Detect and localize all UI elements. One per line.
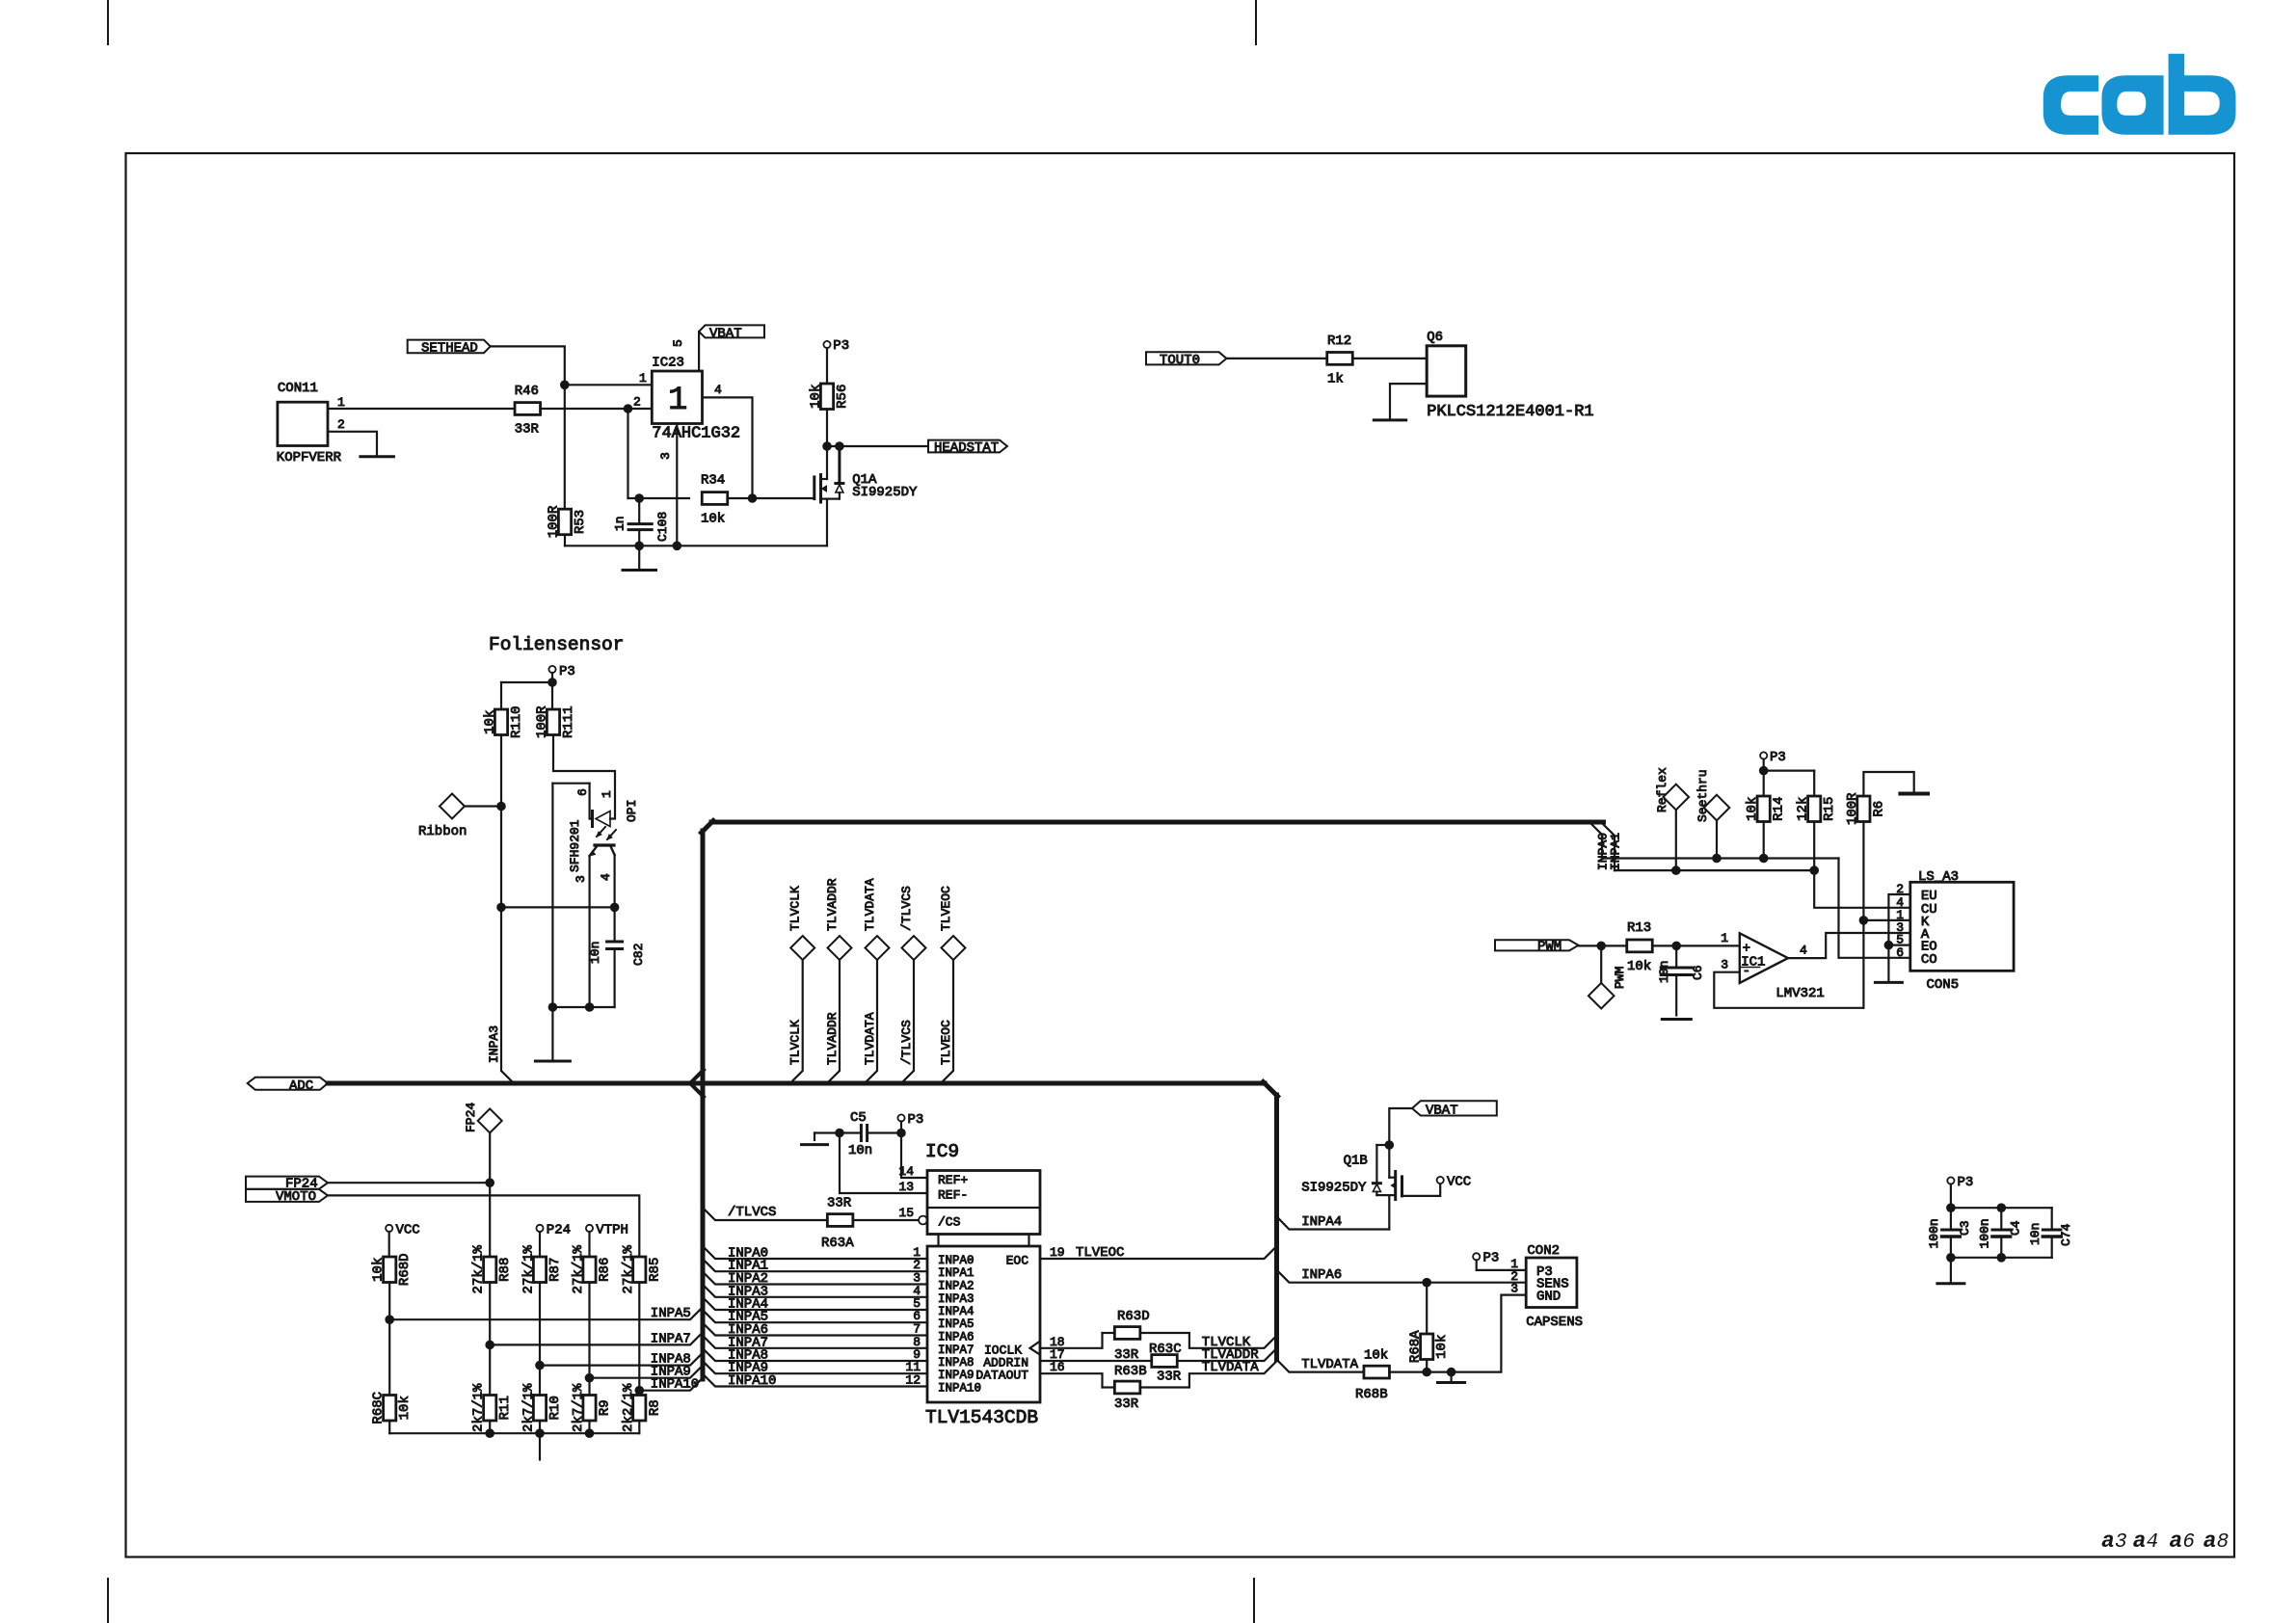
wire P24 to R87: [539, 1232, 541, 1257]
junction pin4/R34/gate: [748, 493, 758, 503]
resistor R85 27k/1%: [633, 1257, 646, 1283]
wire EU pin2 to ground: [1888, 894, 1909, 982]
svg-text:R9: R9: [598, 1399, 613, 1416]
svg-text:SI9925DY: SI9925DY: [852, 485, 918, 500]
svg-text:REF-: REF-: [938, 1188, 968, 1203]
wire R13 to opamp +input pin1: [1652, 945, 1740, 946]
svg-text:R34: R34: [701, 473, 725, 489]
svg-text:INPA3: INPA3: [938, 1292, 974, 1306]
wire R14 to upper net: [1763, 822, 1765, 859]
pin VTPH: [586, 1223, 628, 1238]
svg-text:FP24: FP24: [464, 1103, 478, 1132]
svg-text:Foliensensor: Foliensensor: [489, 634, 624, 655]
svg-text:GND: GND: [1536, 1290, 1561, 1305]
wire Reflex to lower net: [1675, 810, 1677, 870]
svg-text:4: 4: [714, 383, 722, 397]
svg-text:14: 14: [898, 1164, 914, 1179]
svg-text:IC23: IC23: [652, 356, 684, 371]
optocoupler OPI SFH9201: [552, 784, 639, 1007]
svg-text:2: 2: [337, 417, 345, 432]
capacitor C108 1n: [613, 498, 671, 545]
svg-text:19: 19: [1050, 1245, 1065, 1260]
pin P3 of foliensensor: [548, 664, 574, 679]
svg-text:TLVDATA: TLVDATA: [863, 878, 877, 931]
svg-text:10k: 10k: [483, 710, 498, 734]
svg-text:INPA3: INPA3: [487, 1025, 501, 1063]
svg-text:10k: 10k: [1434, 1335, 1450, 1359]
pin VCC: [386, 1223, 420, 1238]
svg-text:VCC: VCC: [1447, 1175, 1471, 1190]
resistor R68C 10k: [384, 1396, 396, 1422]
cab logo: [2043, 54, 2236, 135]
capacitor C6 10n: [1657, 945, 1705, 1015]
svg-text:IC9: IC9: [925, 1141, 959, 1162]
svg-text:R6: R6: [1871, 801, 1886, 817]
wire TLVADDR to bus: [1177, 1348, 1276, 1361]
wire IOCLK pin18 jog: [1040, 1333, 1103, 1348]
svg-text:DATAOUT: DATAOUT: [975, 1369, 1028, 1383]
svg-text:CAPSENS: CAPSENS: [1526, 1315, 1583, 1330]
wire EO pin5 to ground stem: [1888, 944, 1909, 945]
buzzer Q6 PKLCS1212E4001-R1: [1427, 330, 1593, 421]
op IC9 TLV1543CDB: [905, 1141, 1040, 1428]
ground rail of IC23 block: [565, 545, 827, 546]
pin VCC at Q1B: [1437, 1175, 1472, 1190]
ground symbol at CON5: [1875, 981, 1902, 984]
inversion bubble pin15: [919, 1216, 927, 1225]
svg-text:OPI: OPI: [625, 800, 639, 822]
svg-text:INPA6: INPA6: [938, 1331, 974, 1344]
svg-text:R63C: R63C: [1149, 1342, 1182, 1357]
svg-text:/TLVCS: /TLVCS: [899, 1020, 914, 1065]
wire INPA7 from bus to IC9: [703, 1336, 927, 1348]
net flag VMOTO: [246, 1189, 328, 1205]
svg-text:4: 4: [1800, 944, 1807, 958]
pin P3 at CON2: [1473, 1251, 1499, 1266]
svg-text:CON2: CON2: [1527, 1243, 1560, 1259]
svg-text:10n: 10n: [2028, 1223, 2042, 1245]
wire VTPH to R86: [588, 1232, 590, 1257]
svg-text:KOPFVERR: KOPFVERR: [277, 450, 342, 466]
net flag ADC: [248, 1078, 328, 1094]
svg-text:C6: C6: [1691, 965, 1705, 980]
svg-text:R87: R87: [547, 1258, 563, 1282]
wire IC23 pin5 to VBAT: [698, 332, 700, 371]
wire INPA9 from bus to IC9: [703, 1361, 927, 1373]
svg-text:/TLVCS: /TLVCS: [728, 1205, 776, 1220]
svg-text:LMV321: LMV321: [1775, 986, 1824, 1001]
svg-text:74AHC1G32: 74AHC1G32: [652, 425, 740, 443]
pin P3 at C3: [1947, 1175, 1973, 1190]
wire TLVDATA to ADC bus: [866, 960, 877, 1082]
svg-text:TLVDATA: TLVDATA: [1301, 1357, 1358, 1372]
svg-text:R11: R11: [497, 1396, 513, 1420]
ground symbol at C5: [814, 1133, 815, 1141]
svg-text:INPA10: INPA10: [651, 1377, 699, 1393]
svg-text:100R: 100R: [535, 705, 550, 738]
wire TLVEOC (pin19) to bus: [1040, 1246, 1277, 1259]
svg-text:10n: 10n: [588, 942, 602, 964]
svg-text:R46: R46: [515, 384, 539, 399]
svg-text:R63B: R63B: [1114, 1364, 1147, 1379]
svg-text:INPA7: INPA7: [938, 1344, 974, 1357]
wire ADDRIN pin17: [1040, 1360, 1152, 1362]
wire SETHEAD to IC23 pin1: [491, 346, 654, 385]
op IC23 74AHC1G32 OR gate: [652, 339, 740, 460]
svg-text:3: 3: [1510, 1282, 1518, 1296]
pin P24: [536, 1223, 571, 1238]
svg-text:CON11: CON11: [278, 381, 318, 396]
bus bend top-left: [702, 821, 714, 834]
wire Q1B gate to VCC: [1402, 1184, 1441, 1196]
svg-text:1: 1: [600, 790, 614, 798]
capacitor C4 100n: [1977, 1208, 2022, 1258]
wire upper net INPA0/Seethru/R14/CO: [1602, 857, 1839, 859]
wire INPA6 from bus to IC9: [703, 1323, 927, 1336]
svg-text:100n: 100n: [1977, 1218, 1991, 1248]
svg-text:Seethru: Seethru: [1695, 769, 1710, 822]
svg-text:TLVADDR: TLVADDR: [825, 878, 840, 931]
wire INPA1 from bus end: [1604, 825, 1615, 871]
wire P3 to CON2 pin1: [1477, 1260, 1527, 1270]
wire P3 to R14/R15 tops: [1763, 759, 1765, 796]
svg-text:HEADSTAT: HEADSTAT: [934, 440, 999, 456]
svg-text:TLVDATA: TLVDATA: [863, 1012, 877, 1065]
svg-text:R68C: R68C: [371, 1392, 387, 1424]
net flag diamond Seethru: [1695, 769, 1729, 822]
svg-text:R13: R13: [1627, 920, 1651, 936]
wire TOUT0 to R12: [1227, 358, 1328, 359]
svg-text:TLVEOC: TLVEOC: [939, 1020, 953, 1065]
resistor R9 2k7/1%: [583, 1396, 596, 1422]
transistor Q1B SI9925DY: [1301, 1145, 1402, 1230]
op-amp IC1 LMV321: [1740, 933, 1825, 1001]
bus junction ADC/left vertical: [690, 1070, 704, 1083]
svg-text:1: 1: [668, 383, 687, 419]
wire R68B to ground / CON2 GND pin3: [1390, 1295, 1527, 1372]
crop tick top-left: [107, 0, 109, 44]
svg-text:Reflex: Reflex: [1655, 767, 1669, 812]
svg-text:10k: 10k: [809, 385, 824, 409]
wire R63A to /CS pin15: [853, 1219, 919, 1221]
wire INPA3 from bus to IC9: [703, 1285, 927, 1297]
wire P3 to cap rail: [1950, 1184, 1952, 1229]
svg-text:100n: 100n: [1927, 1218, 1941, 1248]
svg-text:33R: 33R: [1157, 1370, 1182, 1385]
wire R110 down to ADC bus (INPA3): [501, 735, 514, 1084]
svg-text:VCC: VCC: [396, 1223, 420, 1238]
svg-text:5: 5: [671, 339, 685, 347]
resistor R87 27k/1%: [533, 1257, 546, 1283]
wire DATAOUT pin16 jog: [1040, 1373, 1103, 1387]
capacitor C74 10n: [2028, 1208, 2073, 1258]
svg-text:1: 1: [639, 371, 647, 386]
svg-text:4: 4: [2147, 1531, 2159, 1554]
wire Seethru to upper net: [1716, 820, 1718, 858]
svg-text:R68D: R68D: [397, 1253, 413, 1286]
wire INPA0 from bus end: [1591, 824, 1603, 859]
svg-text:12: 12: [905, 1373, 921, 1388]
ground symbol at C6: [1662, 1018, 1691, 1021]
wire TLVCLK to ADC bus: [791, 960, 803, 1082]
drawing frame border: [126, 153, 2235, 1557]
ground symbol at CON11 pin2: [360, 455, 394, 458]
ground symbol below C108: [638, 545, 640, 570]
svg-text:a: a: [2169, 1529, 2182, 1554]
net flag diamond TLVEOC: [939, 886, 966, 960]
resistor R63A 33R: [821, 1196, 854, 1252]
svg-text:R88: R88: [497, 1258, 513, 1282]
wire CON11 pin2 to ground: [328, 432, 377, 457]
svg-text:R53: R53: [573, 510, 588, 534]
wire VBAT to Q1B: [1389, 1108, 1412, 1145]
net flag TOUT0: [1146, 352, 1227, 368]
connector CON5 LS_A3: [1896, 869, 2014, 993]
connector CON11 KOPFVERR: [277, 381, 345, 466]
wire cap top rail: [1951, 1207, 2052, 1209]
svg-text:C108: C108: [655, 512, 670, 542]
svg-text:R63A: R63A: [821, 1236, 854, 1251]
wire IC23 pin3 to ground rail: [676, 424, 678, 546]
resistor R68A 10k: [1408, 1283, 1451, 1372]
svg-text:2: 2: [633, 395, 641, 410]
bus bend ADC to right vertical: [1263, 1082, 1277, 1097]
wire cap bottom rail: [1951, 1257, 2052, 1259]
pin P3 at C5: [897, 1112, 923, 1128]
resistor R53 100R: [547, 505, 589, 545]
svg-text:2k2/1%: 2k2/1%: [621, 1383, 636, 1432]
svg-text:1: 1: [1721, 931, 1728, 945]
resistor R8 2k2/1%: [633, 1396, 646, 1422]
svg-text:R110: R110: [509, 705, 524, 738]
wire CON11 pin1 to R46: [328, 408, 515, 410]
wire TLVDATA from bus: [1277, 1360, 1364, 1372]
svg-text:10k: 10k: [701, 512, 725, 527]
net flag diamond FP24: [464, 1103, 502, 1133]
svg-text:C4: C4: [2008, 1220, 2022, 1236]
svg-text:REF+: REF+: [938, 1173, 968, 1187]
svg-text:VBAT: VBAT: [709, 326, 742, 341]
svg-text:1: 1: [337, 395, 345, 410]
svg-text:2k7/1%: 2k7/1%: [471, 1383, 487, 1432]
wire R15 to lower net / CU pin4: [1814, 822, 1910, 908]
wire INPA2 from bus to IC9: [703, 1272, 927, 1285]
wire Q6 to ground: [1390, 384, 1427, 420]
svg-text:3: 3: [2115, 1531, 2127, 1554]
svg-text:P3: P3: [1958, 1175, 1974, 1190]
wire stub below rail: [539, 1433, 541, 1459]
svg-text:C3: C3: [1958, 1220, 1972, 1236]
svg-text:2k7/1%: 2k7/1%: [571, 1383, 586, 1432]
svg-text:C82: C82: [631, 944, 646, 966]
svg-text:ADC: ADC: [289, 1078, 313, 1094]
ground symbol at C3: [1937, 1282, 1964, 1285]
junction SETHEAD/R53 node: [560, 381, 570, 390]
wire R46 to IC23 pin2: [541, 408, 628, 410]
svg-text:Ribbon: Ribbon: [418, 824, 467, 839]
wire R56/Q1A drain to HEADSTAT: [827, 445, 928, 447]
wire INPA4 from bus to IC9: [703, 1297, 927, 1310]
svg-text:10k: 10k: [1364, 1348, 1388, 1364]
resistor R86 27k/1%: [583, 1257, 596, 1283]
wire IC23 pin4 to R34/gate junction: [703, 397, 753, 498]
svg-text:2k7/1%: 2k7/1%: [521, 1383, 537, 1432]
svg-text:1n: 1n: [613, 516, 627, 531]
svg-text:100R: 100R: [547, 505, 562, 538]
svg-text:INPA4: INPA4: [1301, 1214, 1342, 1230]
svg-text:TLVCLK: TLVCLK: [788, 1020, 803, 1065]
svg-text:R10: R10: [547, 1396, 563, 1420]
wire TLVCLK to bus: [1140, 1333, 1277, 1348]
resistor R68D 10k: [384, 1257, 396, 1283]
svg-text:10k: 10k: [1627, 959, 1651, 974]
svg-text:3: 3: [1721, 958, 1728, 972]
net flag diamond Reflex: [1655, 767, 1689, 812]
svg-text:VMOTO: VMOTO: [276, 1189, 316, 1205]
wire to ground: [1950, 1258, 1952, 1284]
svg-text:P3: P3: [908, 1112, 924, 1128]
svg-text:16: 16: [1050, 1360, 1065, 1374]
wire upper net down to CO pin6: [1839, 859, 1910, 958]
bus left vertical: [701, 831, 706, 1379]
net flag PWM: [1495, 940, 1579, 955]
svg-text:INPA5: INPA5: [938, 1317, 974, 1331]
transistor Q1A SI9925DY: [814, 446, 918, 545]
resistor R56 10k: [809, 348, 851, 446]
svg-text:100R: 100R: [1845, 792, 1860, 825]
wire INPA5 row to bus: [388, 1283, 390, 1396]
wire /TLVCS to ADC bus: [902, 960, 914, 1082]
svg-text:P24: P24: [547, 1223, 571, 1238]
svg-text:/CS: /CS: [938, 1215, 961, 1230]
crop tick top-middle: [1255, 0, 1257, 44]
wire INPA0 from bus to IC9: [703, 1246, 927, 1259]
svg-text:INPA0: INPA0: [938, 1254, 974, 1267]
svg-text:INPA9: INPA9: [938, 1369, 974, 1382]
capacitor C5 10n: [848, 1110, 872, 1158]
wire to ground: [551, 784, 553, 1061]
svg-text:P3: P3: [1483, 1251, 1500, 1266]
svg-text:C74: C74: [2059, 1223, 2073, 1246]
wire node to R53: [564, 385, 566, 509]
svg-text:INPA10: INPA10: [938, 1382, 981, 1396]
svg-text:10k: 10k: [371, 1258, 387, 1282]
svg-text:R15: R15: [1822, 797, 1837, 821]
svg-text:33R: 33R: [1114, 1397, 1139, 1412]
svg-text:3: 3: [658, 452, 673, 460]
svg-text:CO: CO: [1921, 952, 1937, 968]
svg-text:PKLCS1212E4001-R1: PKLCS1212E4001-R1: [1427, 403, 1593, 421]
svg-text:Q1B: Q1B: [1344, 1154, 1368, 1169]
svg-text:27k/1%: 27k/1%: [571, 1244, 586, 1293]
wire R6 bottom to K pin1 and feedback: [1862, 822, 1864, 1008]
svg-text:12k: 12k: [1796, 797, 1811, 821]
wire TLVADDR to ADC bus: [828, 960, 840, 1082]
bus ADC horizontal: [328, 1081, 1265, 1086]
resistor R68B 10k: [1355, 1348, 1389, 1403]
wire INPA4 from bus to Q1B: [1277, 1216, 1390, 1229]
resistor R110 10k: [494, 709, 507, 735]
svg-text:10k: 10k: [1745, 797, 1760, 821]
ground symbol at R68B: [1450, 1372, 1452, 1383]
resistor R34 10k: [701, 473, 728, 527]
resistor R63D 33R: [1103, 1309, 1150, 1363]
svg-text:INPA1: INPA1: [938, 1266, 974, 1280]
svg-text:P3: P3: [559, 664, 575, 679]
wire VMOTO to R85: [328, 1195, 639, 1257]
wire Ribbon to INPA3 line: [465, 805, 501, 807]
power flag VBAT (IC23 pin5): [699, 325, 764, 341]
svg-text:10n: 10n: [848, 1143, 872, 1158]
net flag SETHEAD: [408, 340, 491, 357]
resistor R12 1k: [1327, 333, 1353, 387]
svg-text:Q6: Q6: [1427, 330, 1443, 345]
svg-text:33R: 33R: [515, 422, 540, 438]
svg-text:TLVDATA: TLVDATA: [1202, 1360, 1259, 1375]
svg-text:27k/1%: 27k/1%: [521, 1244, 537, 1293]
svg-text:15: 15: [898, 1206, 914, 1220]
svg-text:4: 4: [599, 873, 613, 881]
svg-text:P3: P3: [1770, 750, 1786, 765]
net flag diamond TLVADDR: [825, 878, 852, 960]
svg-text:TLVADDR: TLVADDR: [825, 1012, 840, 1065]
wire VCC to R68D: [388, 1232, 390, 1257]
wire P3 to R110/R111: [551, 673, 553, 709]
resistor R88 27k/1%: [484, 1257, 496, 1283]
svg-text:6: 6: [2182, 1531, 2195, 1554]
svg-text:PWM: PWM: [1537, 940, 1562, 955]
resistor R46 33R: [515, 384, 541, 438]
wire opamp -input pin3 / feedback: [1714, 972, 1863, 1008]
svg-text:R85: R85: [647, 1258, 662, 1282]
svg-text:10k: 10k: [397, 1396, 413, 1420]
svg-text:R12: R12: [1327, 333, 1351, 349]
resistor R13 10k: [1627, 920, 1653, 974]
ground symbol at R6: [1900, 792, 1928, 796]
wire /TLVCS from bus: [703, 1208, 827, 1220]
svg-text:13: 13: [898, 1180, 914, 1194]
svg-text:TOUT0: TOUT0: [1160, 353, 1200, 368]
svg-text:INPA4: INPA4: [938, 1305, 974, 1318]
connector CON2 CAPSENS: [1510, 1243, 1583, 1330]
wire TLVDATA to bus bottom: [1140, 1361, 1277, 1387]
resistor R14 10k: [1757, 796, 1770, 822]
crop tick bottom-left: [107, 1579, 109, 1623]
svg-text:6: 6: [575, 788, 590, 796]
svg-text:VBAT: VBAT: [1426, 1103, 1458, 1118]
wire P3 to IC9 REF+ pin14: [901, 1122, 927, 1179]
wire INPA7 row to bus: [489, 1283, 491, 1396]
resistor R63C 33R: [1149, 1342, 1182, 1385]
ground symbol at Q6: [1374, 418, 1405, 421]
net flag FP24: [246, 1177, 328, 1192]
wire PWM to R13: [1579, 945, 1627, 946]
resistor R10 2k7/1%: [533, 1396, 546, 1422]
svg-text:8: 8: [2217, 1531, 2229, 1554]
wire INPA8 from bus to IC9: [703, 1348, 927, 1361]
junction C108 top: [634, 493, 644, 503]
wire FP24 flag to R88: [328, 1182, 490, 1184]
ground symbol foliensensor: [535, 1060, 570, 1063]
wire bottom common rail: [388, 1421, 390, 1433]
svg-text:/TLVCS: /TLVCS: [899, 886, 914, 931]
svg-text:R86: R86: [598, 1258, 613, 1282]
svg-text:6: 6: [1896, 945, 1904, 960]
svg-text:27k/1%: 27k/1%: [471, 1244, 487, 1293]
wire INPA5 from bus to IC9: [703, 1310, 927, 1322]
svg-text:C5: C5: [850, 1110, 867, 1126]
resistor R11 2k7/1%: [484, 1396, 496, 1422]
